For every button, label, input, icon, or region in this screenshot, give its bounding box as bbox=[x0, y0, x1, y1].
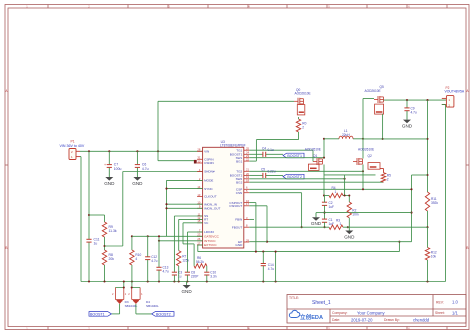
wire VC bbox=[183, 223, 203, 266]
capacitor C2 1uF bbox=[322, 201, 334, 209]
capacitor C5 0.22u bbox=[261, 167, 276, 178]
svg-text:C4: C4 bbox=[262, 146, 266, 150]
wire kelvin riser bbox=[411, 175, 413, 242]
wire CSS bottom bbox=[173, 275, 175, 281]
svg-text:13: 13 bbox=[197, 193, 200, 197]
svg-text:chenddd: chenddd bbox=[413, 317, 430, 322]
resistor R2 10m bbox=[347, 202, 359, 218]
svg-text:VIN 36V to 40V: VIN 36V to 40V bbox=[60, 144, 85, 148]
junction bottom rail x275.6 bbox=[275, 280, 277, 282]
svg-text:1u: 1u bbox=[94, 242, 98, 246]
wire C14 top bbox=[262, 252, 264, 264]
svg-text:VIN: VIN bbox=[204, 150, 209, 154]
svg-text:AOD2610E: AOD2610E bbox=[358, 147, 374, 151]
svg-text:Q2: Q2 bbox=[368, 154, 372, 158]
wire EXTVCC route bbox=[198, 245, 400, 252]
wire C13 bottom bbox=[158, 270, 160, 281]
wire C8 bottom bbox=[186, 275, 188, 281]
junction bottom rail x187.4 bbox=[186, 280, 188, 282]
junction bottom rail x131.9 bbox=[131, 280, 133, 282]
svg-text:10k: 10k bbox=[431, 254, 437, 258]
wire SHDN tap bbox=[105, 172, 123, 247]
wire rail to D3 bbox=[123, 282, 125, 288]
junction INTVCC-C13 bbox=[158, 240, 160, 242]
junction bottom rail x104.5 bbox=[103, 280, 105, 282]
svg-text:VC: VC bbox=[204, 221, 209, 225]
junction SW2-L1 bbox=[362, 138, 364, 140]
wire mid to CSNOUT route bbox=[325, 212, 412, 214]
junction VIN-C6 bbox=[136, 150, 138, 152]
wire mid gnd tap bbox=[316, 212, 325, 214]
pin CSP 6 (right) bbox=[236, 186, 249, 192]
wire C12 top bbox=[147, 236, 149, 256]
capacitor C7 100u bbox=[104, 163, 121, 171]
junction D3 top bbox=[123, 286, 125, 288]
wire BOOST1 bbox=[249, 153, 262, 155]
junction sense-kelvin bbox=[426, 174, 428, 176]
ground at C6 bbox=[132, 168, 143, 186]
junction R10-GATEVCC bbox=[131, 235, 133, 237]
junction MODE-IMONIN bbox=[165, 203, 167, 205]
svg-text:IMON_OUT: IMON_OUT bbox=[204, 207, 220, 211]
svg-text:18: 18 bbox=[246, 179, 249, 183]
transistor Q2 AOD2610E bbox=[353, 147, 380, 169]
wire SHDN to IC bbox=[123, 171, 203, 173]
svg-text:20: 20 bbox=[246, 172, 249, 176]
pin CSNOUT 17 (right) bbox=[229, 202, 249, 208]
capacitor C9 4.7u bbox=[404, 107, 417, 115]
wire C7 top bbox=[108, 151, 110, 164]
svg-text:BG1: BG1 bbox=[236, 159, 242, 163]
junction bottom rail x89 bbox=[88, 280, 90, 282]
svg-text:EXTVCC: EXTVCC bbox=[204, 243, 217, 247]
wire CSP bbox=[249, 188, 411, 190]
svg-text:Your Company: Your Company bbox=[357, 310, 385, 315]
wire R10 bus bbox=[132, 235, 148, 237]
capacitor C11 1u bbox=[86, 237, 99, 245]
pin EP 29 (right) bbox=[238, 238, 249, 244]
wire R2 top link bbox=[348, 196, 350, 203]
junction C11-R9 tap bbox=[88, 214, 90, 216]
svg-text:22: 22 bbox=[246, 158, 249, 162]
junction rail-D3 bbox=[123, 280, 125, 282]
wire BG2 bbox=[249, 181, 383, 183]
wire TG2 to Q5 riser bbox=[249, 170, 363, 172]
capacitor C10 3.3n bbox=[204, 270, 217, 278]
svg-text:CLKOUT: CLKOUT bbox=[204, 195, 217, 199]
wire R2 bottom bbox=[348, 218, 350, 230]
svg-text:11.3k: 11.3k bbox=[109, 229, 117, 233]
svg-text:29: 29 bbox=[246, 238, 249, 242]
wire SW1 pin bbox=[249, 157, 324, 159]
op-amp U3 LT8708EFE#PBF body bbox=[203, 147, 244, 248]
svg-text:2: 2 bbox=[387, 178, 389, 182]
pin TG2 21 (right) bbox=[236, 168, 249, 174]
wire SW2 node bbox=[362, 99, 364, 159]
svg-text:220P: 220P bbox=[191, 274, 198, 278]
junction MODE-IMONOUT bbox=[165, 207, 167, 209]
resistor R4 1 bbox=[329, 186, 343, 198]
designator P2 bbox=[446, 86, 450, 90]
resistor R8 20k bbox=[102, 250, 114, 265]
net flag BOOST1 (bottom) bbox=[89, 312, 111, 317]
wire sense drop left bbox=[344, 175, 346, 196]
wire Q2 source bbox=[362, 165, 364, 190]
wire Q5 gate from SW2 riser bbox=[363, 98, 374, 100]
wire Q1 drain bbox=[323, 157, 325, 160]
wire BOOST2 bbox=[249, 174, 262, 176]
wire RT bbox=[179, 219, 203, 250]
svg-text:30: 30 bbox=[197, 159, 200, 163]
capacitor C13 4.7u bbox=[156, 266, 169, 274]
svg-text:FBOUT: FBOUT bbox=[232, 225, 243, 229]
junction C14 top bbox=[262, 251, 264, 253]
svg-text:22uH: 22uH bbox=[342, 133, 350, 137]
svg-text:Sheet_1: Sheet_1 bbox=[312, 300, 331, 306]
junction R3-R2 bbox=[347, 226, 349, 228]
wire C2 bottom bbox=[324, 205, 326, 219]
wire Q1-Q2 source row bbox=[324, 174, 376, 176]
pin FBOUT 8 (right) bbox=[232, 224, 249, 230]
svg-text:B: B bbox=[5, 246, 7, 250]
svg-text:BG2: BG2 bbox=[236, 180, 242, 184]
wire R12 top bbox=[427, 227, 429, 247]
capacitor C1 1uF bbox=[322, 218, 334, 226]
wire C1 bottom bbox=[324, 222, 326, 227]
svg-text:4.7u: 4.7u bbox=[268, 267, 274, 271]
svg-text:GND: GND bbox=[132, 181, 143, 186]
wire P1 pin1 to ground rail bbox=[80, 157, 81, 282]
wire EP bbox=[249, 241, 267, 243]
svg-text:B: B bbox=[466, 246, 468, 250]
wire bottom rail bbox=[81, 281, 446, 283]
capacitor C8 220p bbox=[185, 270, 199, 278]
resistor R5 2 bbox=[381, 173, 391, 183]
junction VOUT-sense bbox=[426, 99, 428, 101]
pin VIN 28 (left) bbox=[197, 148, 209, 154]
svg-text:GATEVCC: GATEVCC bbox=[204, 235, 219, 239]
pin CSPIN 31 (left) bbox=[197, 156, 213, 162]
wire INTVCC bus bbox=[159, 240, 203, 242]
junction bottom rail x178.7 bbox=[178, 280, 180, 282]
junction nest drop top bbox=[275, 251, 277, 253]
junction bottom rail x174.4 bbox=[173, 280, 175, 282]
svg-text:1/1: 1/1 bbox=[452, 310, 458, 315]
svg-text:1: 1 bbox=[340, 222, 342, 226]
svg-text:TITLE:: TITLE: bbox=[289, 296, 299, 300]
svg-text:CSNIN: CSNIN bbox=[204, 161, 214, 165]
pin INTVCC 26 (left) bbox=[197, 237, 216, 243]
junction C1 bottom bbox=[323, 226, 325, 228]
wire C9 top bbox=[406, 100, 408, 108]
junction bottom rail x263.3 bbox=[262, 280, 264, 282]
pin SW1 23 (right) bbox=[236, 154, 250, 160]
svg-text:GND: GND bbox=[104, 181, 115, 186]
svg-text:0.22u: 0.22u bbox=[268, 169, 276, 173]
wire Q0 source bbox=[298, 117, 300, 119]
wire kelvin top bbox=[412, 174, 428, 176]
svg-text:SHDN#: SHDN# bbox=[204, 170, 215, 174]
wire Q2 source lead bbox=[380, 169, 384, 173]
wire Q1 source bbox=[323, 165, 325, 196]
svg-text:Company:: Company: bbox=[332, 311, 348, 315]
svg-text:VOUT48V5A: VOUT48V5A bbox=[445, 90, 465, 94]
svg-text:+: + bbox=[104, 163, 106, 167]
diode D3 SB1040L bbox=[112, 288, 138, 308]
junction SHDN divider bbox=[103, 245, 105, 247]
junction VIN-C7 bbox=[108, 150, 110, 152]
svg-text:4.7u: 4.7u bbox=[411, 111, 417, 115]
junction VIN-riser bbox=[157, 150, 159, 152]
wire CSN bbox=[249, 193, 301, 228]
svg-text:SB1040L: SB1040L bbox=[146, 304, 159, 308]
pin GND (EP pad) bbox=[235, 243, 243, 247]
svg-text:1.0: 1.0 bbox=[452, 299, 458, 304]
wire C14 bottom bbox=[262, 266, 264, 282]
designator P1 label bbox=[71, 140, 75, 144]
wire R10 bottom bbox=[131, 265, 133, 282]
pin EXTVCC 27 (left) bbox=[197, 241, 217, 247]
wire C10 bottom bbox=[206, 275, 208, 281]
wire R9 to R8 bbox=[104, 237, 106, 250]
junction FB node bbox=[426, 226, 428, 228]
pin BG1 22 (right) bbox=[236, 158, 249, 164]
resistor R11 392k bbox=[425, 192, 438, 211]
svg-text:10m: 10m bbox=[352, 212, 359, 216]
junction R4 right bbox=[344, 194, 346, 196]
wire R7 bottom bbox=[178, 266, 180, 282]
pin CSNIN 30 (left) bbox=[197, 159, 214, 165]
svg-text:24: 24 bbox=[246, 151, 249, 155]
junction MODE-SYNC bbox=[165, 188, 167, 190]
svg-text:CSNOUT: CSNOUT bbox=[229, 204, 242, 208]
wire C11 upper bbox=[88, 151, 90, 239]
wire C6 top bbox=[136, 151, 138, 164]
capacitor C14 4.7u bbox=[261, 263, 275, 271]
svg-text:AOD2610E: AOD2610E bbox=[365, 89, 381, 93]
wire CSPOUT route bbox=[249, 203, 256, 252]
svg-text:2: 2 bbox=[302, 125, 304, 129]
wire C12 bottom bbox=[147, 260, 149, 282]
junction EP join bbox=[266, 241, 268, 243]
transistor Q5 AOD2610E bbox=[365, 85, 384, 114]
resistor R12 10k bbox=[425, 248, 437, 261]
junction GATEVCC-C12 bbox=[147, 235, 149, 237]
svg-text:1: 1 bbox=[335, 190, 337, 194]
svg-text:立创EDA: 立创EDA bbox=[300, 313, 323, 321]
wire Q0 to SW1 row bbox=[256, 132, 298, 161]
junction bottom rail x147.7 bbox=[147, 280, 149, 282]
net label VIN 36V to 40V bbox=[60, 144, 85, 148]
pin LDO33 7 (left) bbox=[197, 228, 214, 234]
wire C5 to flag bbox=[266, 174, 283, 176]
junction kelvin-mid bbox=[410, 212, 412, 214]
svg-text:Drawn By:: Drawn By: bbox=[384, 318, 400, 322]
junction C13-GATEVCC bbox=[158, 235, 160, 237]
svg-text:LT8708EFE#PBF: LT8708EFE#PBF bbox=[220, 143, 246, 147]
wire R12 bottom bbox=[427, 260, 429, 282]
svg-text:GND: GND bbox=[402, 124, 413, 129]
svg-text:GND: GND bbox=[311, 221, 322, 226]
pin IMON_OUT 9 (left) bbox=[197, 205, 220, 211]
value LT8708EFE#PBF bbox=[220, 143, 246, 147]
capacitor C6 4.7u bbox=[135, 163, 149, 171]
junction sense-L1row bbox=[426, 138, 428, 140]
wire SW2 row extension bbox=[363, 138, 428, 140]
junction nest jog bbox=[398, 241, 400, 243]
wire SYNC bbox=[167, 188, 203, 190]
wire rail to D4 bbox=[131, 282, 133, 288]
wire SW2 pin bbox=[249, 178, 344, 180]
junction kelvin-CSP bbox=[410, 188, 412, 190]
junction bottom rail x427.5 bbox=[426, 280, 428, 282]
svg-text:100u: 100u bbox=[114, 167, 122, 171]
svg-text:4.7u: 4.7u bbox=[163, 270, 169, 274]
inductor L1 22uH bbox=[324, 129, 363, 139]
pin BOOST2 20 (right) bbox=[230, 172, 250, 178]
wire IMON_OUT bbox=[167, 207, 203, 209]
wire VIN rail bbox=[80, 150, 203, 152]
pin CSN 5 (right) bbox=[236, 189, 250, 195]
svg-text:2019-07-20: 2019-07-20 bbox=[351, 317, 373, 322]
wire R8 bottom bbox=[104, 265, 106, 282]
wire VOUT sense drop bbox=[427, 100, 429, 192]
capacitor C4 0.1u bbox=[262, 146, 274, 157]
resistor R0 2 bbox=[296, 119, 306, 132]
ground at C7 bbox=[104, 168, 115, 186]
junction C2-C1 mid bbox=[323, 212, 325, 214]
wire R10 top bbox=[131, 236, 133, 250]
svg-text:19: 19 bbox=[246, 175, 249, 179]
pin SS 11 (left) bbox=[197, 212, 208, 218]
svg-text:20k: 20k bbox=[109, 257, 115, 261]
ground at C9 bbox=[402, 111, 413, 129]
svg-text:125k: 125k bbox=[182, 259, 189, 263]
wire FBOUT chain bbox=[249, 226, 427, 228]
wire Q5 source drop bbox=[382, 114, 384, 139]
svg-text:GND: GND bbox=[235, 243, 243, 247]
svg-text:21: 21 bbox=[246, 168, 249, 172]
connector P1 bbox=[69, 149, 80, 160]
svg-text:MODE: MODE bbox=[204, 179, 213, 183]
wire IMON_IN bbox=[167, 203, 203, 205]
wire output return riser bbox=[445, 105, 447, 282]
pin RT 12 (left) bbox=[197, 216, 208, 222]
svg-text:SYNC: SYNC bbox=[204, 187, 213, 191]
junction SW1 pin bbox=[323, 157, 325, 159]
title block bbox=[287, 295, 466, 324]
wire D3 to flag bbox=[119, 304, 121, 314]
wire FBIN bbox=[249, 218, 254, 220]
svg-text:1uF: 1uF bbox=[329, 205, 335, 209]
svg-text:GND: GND bbox=[344, 235, 355, 240]
pin IMON_IN 10 (left) bbox=[197, 201, 217, 207]
wire C4 to flag bbox=[266, 153, 283, 155]
net flag BOOST2 (bottom) bbox=[152, 312, 174, 317]
svg-text:31: 31 bbox=[197, 156, 200, 160]
svg-text:AOD2610E: AOD2610E bbox=[305, 147, 321, 151]
svg-text:P1: P1 bbox=[71, 140, 75, 144]
resistor R6 56.2k bbox=[194, 256, 207, 268]
pin SYNC 14 (left) bbox=[197, 185, 213, 191]
svg-text:CSN: CSN bbox=[236, 191, 243, 195]
pin SHDN# 4 (left) bbox=[197, 168, 215, 174]
pin GATEVCC 23 (left) bbox=[197, 233, 219, 239]
wire D4 flag link bbox=[136, 313, 152, 315]
wire GATEVCC bus bbox=[148, 235, 203, 237]
designator U3 bbox=[221, 140, 225, 144]
junction TG2 bbox=[362, 170, 364, 172]
ground at sense mid bbox=[311, 213, 322, 227]
pin SW2 19 (right) bbox=[236, 175, 250, 181]
wire BG1 to Q0 loop bbox=[249, 160, 256, 162]
net flag BOOST2 (right) bbox=[283, 174, 304, 179]
wire SS bbox=[174, 216, 202, 272]
wire C2 top bbox=[323, 196, 326, 203]
transistor Q0 AOD2610E bbox=[294, 88, 311, 115]
wire P2 pin2 down bbox=[442, 104, 446, 106]
wire R6 right bbox=[206, 266, 208, 272]
svg-text:FBIN: FBIN bbox=[235, 218, 242, 222]
svg-text:REV:: REV: bbox=[436, 300, 444, 304]
junction bottom rail x159 bbox=[158, 280, 160, 282]
svg-text:0.1u: 0.1u bbox=[268, 148, 274, 152]
resistor R3 1 bbox=[329, 219, 343, 230]
resistor R7 125k bbox=[177, 251, 190, 266]
junction SW1-L1 bbox=[323, 138, 325, 140]
ground at bottom rail bbox=[181, 282, 192, 295]
resistor R10 4 bbox=[130, 250, 142, 265]
junction bottom rail x206.8 bbox=[206, 280, 208, 282]
svg-text:4.7u: 4.7u bbox=[142, 167, 149, 171]
wire VOUT rail bbox=[384, 99, 447, 101]
junction SW2-sense drop bbox=[344, 178, 346, 180]
wire C13 top bbox=[158, 236, 160, 267]
wire R4 ends bbox=[324, 195, 349, 197]
ground at sense bottom bbox=[344, 230, 355, 240]
capacitor C12 4.7u bbox=[145, 255, 158, 263]
pin BOOST1 24 (right) bbox=[230, 151, 250, 157]
pin CLKOUT 13 (left) bbox=[197, 193, 217, 199]
net flag BOOST1 (right) bbox=[283, 153, 304, 158]
wire D4 to flag bbox=[135, 304, 137, 314]
junction R4 left bbox=[323, 194, 325, 196]
net label VOUT48V5A bbox=[445, 90, 465, 94]
svg-text:AOD2610E: AOD2610E bbox=[295, 92, 311, 96]
wire SW1 node bbox=[323, 139, 325, 159]
svg-text:25: 25 bbox=[246, 147, 249, 151]
wire LDO33 bbox=[188, 232, 203, 272]
pin MODE 2 (left) bbox=[197, 177, 213, 183]
junction R2 top bbox=[348, 194, 350, 196]
wire nest drop bbox=[275, 252, 277, 282]
junction D4 top bbox=[131, 286, 133, 288]
junction VOUT-C9 bbox=[406, 99, 408, 101]
pin VC 15 (left) bbox=[197, 219, 209, 225]
wire CSNOUT route bbox=[249, 206, 411, 242]
connector P2 bbox=[442, 96, 454, 108]
svg-text:Sheet:: Sheet: bbox=[435, 311, 445, 315]
junction VIN-C11 bbox=[88, 150, 90, 152]
pin TG1 25 (right) bbox=[236, 147, 249, 153]
svg-text:C5: C5 bbox=[261, 167, 265, 171]
diode D4 SB1040L bbox=[128, 288, 159, 308]
junction CSNIN blob bbox=[194, 160, 197, 164]
svg-text:Date:: Date: bbox=[332, 318, 340, 322]
junction CSN join bbox=[301, 226, 303, 228]
wire CSNIN sense bbox=[158, 151, 195, 160]
svg-text:23: 23 bbox=[246, 154, 249, 158]
